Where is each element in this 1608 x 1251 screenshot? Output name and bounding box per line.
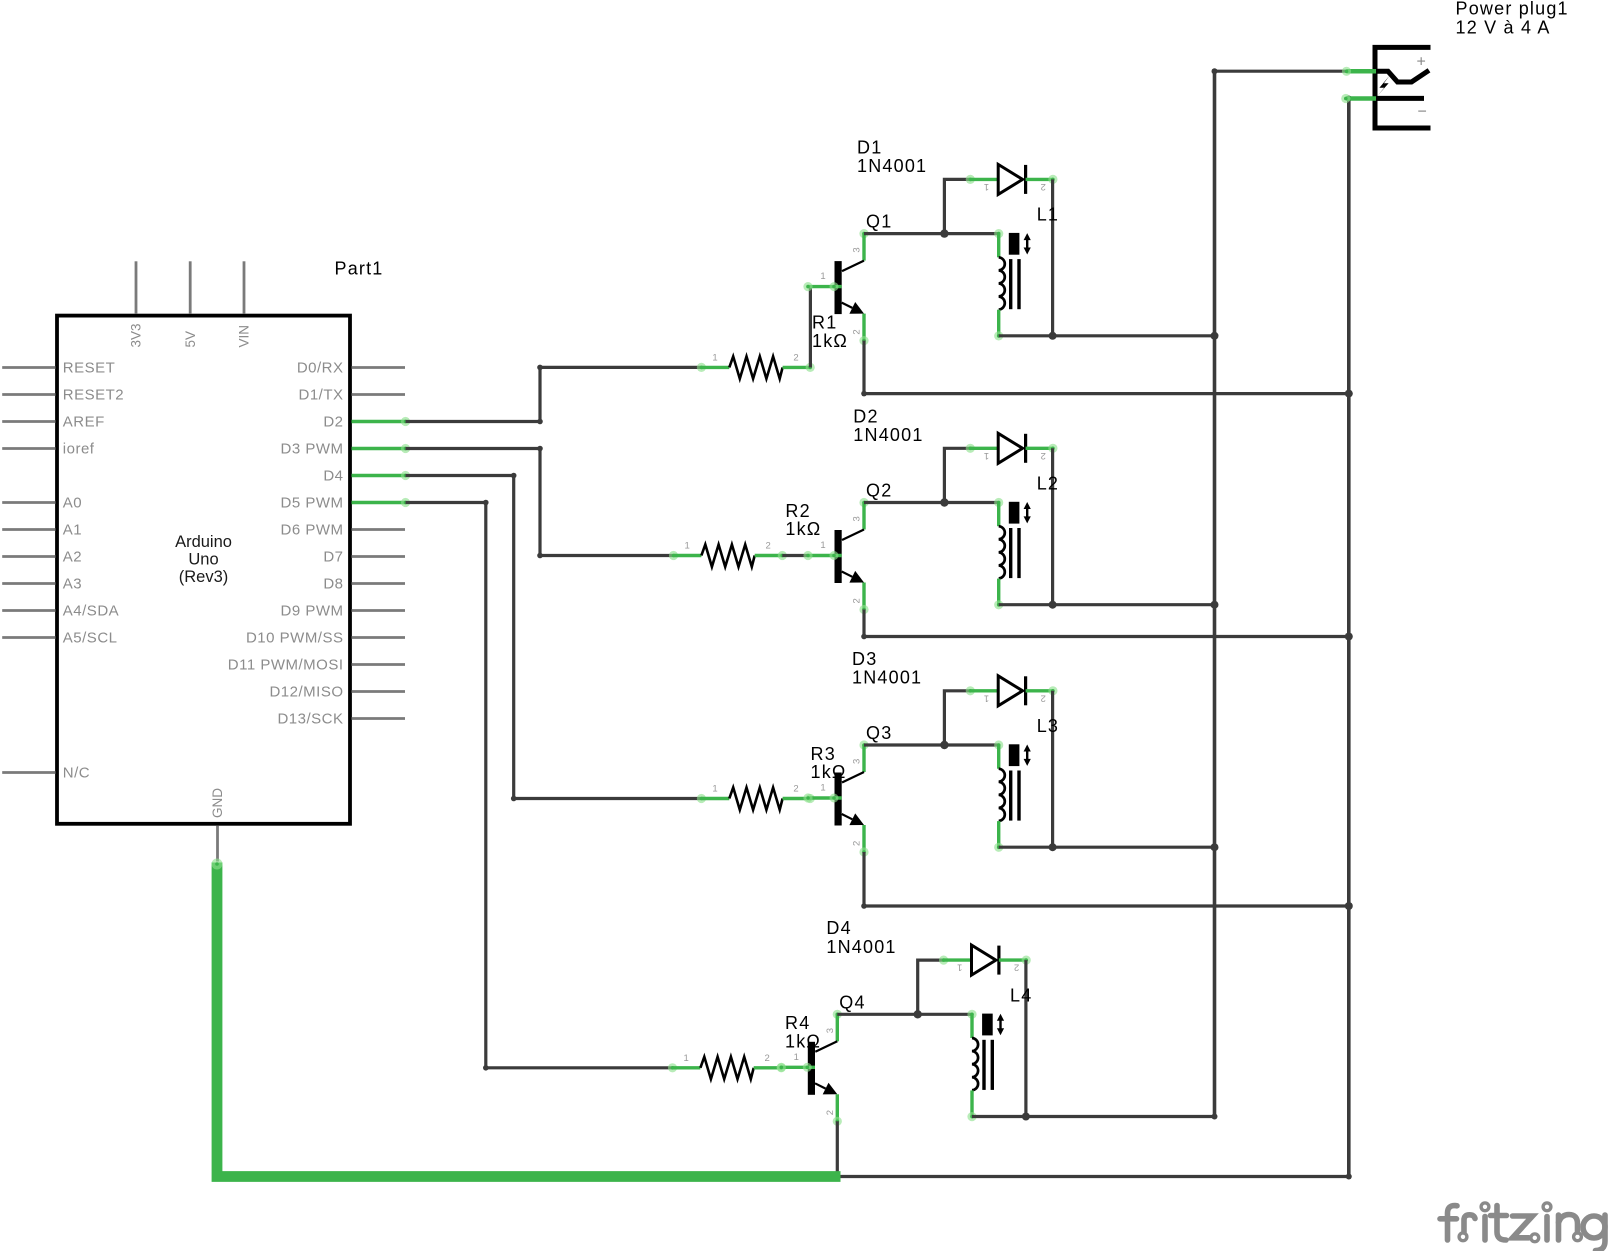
pin A3: [2, 576, 82, 593]
svg-text:R3: R3: [811, 744, 836, 764]
transistor Q1: [803, 212, 892, 346]
svg-text:1: 1: [984, 692, 989, 703]
diode D4 1N4001: [826, 918, 1030, 1018]
svg-text:R1: R1: [812, 313, 837, 333]
svg-text:−: −: [1418, 104, 1427, 121]
svg-text:D1/TX: D1/TX: [298, 387, 343, 404]
svg-text:1kΩ: 1kΩ: [785, 1031, 821, 1051]
svg-text:D3: D3: [852, 649, 877, 669]
resistor R4 1k ohm: [668, 1013, 821, 1079]
svg-text:D8: D8: [323, 576, 343, 593]
svg-text:1N4001: 1N4001: [852, 668, 922, 688]
wire Q1 collector to L1: [864, 232, 999, 235]
wire D2 cathode to L2 bottom: [1049, 448, 1057, 608]
wire Q3 collector to L3: [864, 743, 999, 746]
transistor Q4: [777, 992, 866, 1126]
svg-text:D0/RX: D0/RX: [297, 360, 344, 377]
svg-text:D4: D4: [323, 468, 343, 485]
diode D1 1N4001: [857, 137, 1058, 237]
svg-text:D1: D1: [857, 137, 882, 157]
pin N/C: [2, 765, 90, 782]
pin A4/SDA: [2, 603, 119, 620]
svg-text:ioref: ioref: [63, 441, 95, 458]
svg-text:A5/SCL: A5/SCL: [63, 630, 118, 647]
svg-text:1: 1: [794, 1052, 799, 1063]
wire R2 to Q2 base: [782, 554, 808, 557]
wire Q2 collector to L2: [864, 501, 999, 504]
svg-text:1: 1: [683, 1053, 688, 1064]
resistor R2 1k ohm: [669, 501, 822, 567]
pin RESET: [2, 360, 115, 377]
pin D3 PWM: [281, 441, 411, 458]
svg-text:Q3: Q3: [866, 723, 892, 743]
svg-text:R2: R2: [785, 501, 810, 521]
pin D2: [323, 414, 410, 431]
pin ioref: [2, 441, 95, 458]
wire Q4 emitter to ground bus: [837, 1121, 1352, 1179]
wire D5 pin to resistor R4: [406, 500, 673, 1071]
svg-text:A0: A0: [63, 495, 82, 512]
svg-text:N/C: N/C: [63, 765, 90, 782]
pin A2: [2, 549, 82, 566]
svg-text:+: +: [1417, 54, 1426, 71]
wire +12V bus to power plug +: [1215, 70, 1347, 73]
svg-text:5V: 5V: [183, 331, 198, 348]
svg-text:2: 2: [793, 784, 798, 795]
svg-text:D2: D2: [853, 406, 878, 426]
svg-text:1: 1: [957, 962, 962, 973]
inductor L3: [994, 716, 1059, 852]
svg-text:2: 2: [1014, 962, 1019, 973]
svg-text:D7: D7: [323, 549, 343, 566]
svg-text:L3: L3: [1037, 716, 1059, 736]
svg-text:2: 2: [765, 541, 770, 552]
svg-text:1: 1: [820, 271, 825, 282]
resistor R1 1k ohm: [697, 313, 848, 379]
pin D4: [323, 468, 410, 485]
svg-text:1: 1: [984, 450, 989, 461]
svg-text:1kΩ: 1kΩ: [812, 331, 848, 351]
pin GND: [210, 788, 225, 862]
svg-text:L2: L2: [1037, 474, 1059, 494]
svg-text:2: 2: [1041, 692, 1046, 703]
svg-text:2: 2: [793, 352, 798, 363]
wire D2 pin to resistor R1: [406, 365, 702, 425]
pin D7: [323, 549, 405, 566]
diode D3 1N4001: [852, 649, 1058, 749]
svg-text:Q2: Q2: [866, 481, 892, 501]
svg-text:2: 2: [1041, 450, 1046, 461]
svg-text:1N4001: 1N4001: [857, 156, 927, 176]
svg-text:3V3: 3V3: [129, 323, 144, 347]
svg-text:D9 PWM: D9 PWM: [281, 603, 344, 620]
pin D11 PWM/MOSI: [228, 657, 405, 674]
resistor R3 1k ohm: [697, 744, 847, 810]
inductor L1: [994, 205, 1059, 341]
svg-text:RESET2: RESET2: [63, 387, 124, 404]
pin A1: [2, 522, 82, 539]
pin 3V3: [129, 261, 144, 347]
svg-text:(Rev3): (Rev3): [179, 568, 229, 586]
svg-text:2: 2: [764, 1053, 769, 1064]
pin AREF: [2, 414, 105, 431]
pin D5 PWM: [281, 495, 411, 512]
GND wire (thick green from Arduino GND): [212, 859, 841, 1177]
wire Q3 emitter to ground bus: [861, 852, 1353, 910]
wire L1 bottom to +12V bus: [999, 332, 1219, 340]
svg-text:1: 1: [984, 181, 989, 192]
transistor Q2: [803, 481, 892, 615]
pin D6 PWM: [281, 522, 406, 539]
svg-text:12 V à 4 A: 12 V à 4 A: [1456, 18, 1551, 38]
svg-text:3: 3: [852, 247, 863, 252]
label Part1: [335, 259, 384, 279]
wire Q4 collector to L4: [837, 1013, 972, 1016]
svg-text:D10 PWM/SS: D10 PWM/SS: [246, 630, 344, 647]
svg-text:D12/MISO: D12/MISO: [269, 684, 343, 701]
wire D3 pin to resistor R2: [406, 446, 674, 559]
transistor Q3: [803, 723, 892, 857]
inductor L4: [967, 985, 1032, 1121]
wire D4 cathode to L4 bottom: [1022, 960, 1030, 1120]
svg-text:2: 2: [825, 1110, 836, 1115]
svg-text:1kΩ: 1kΩ: [785, 519, 821, 539]
svg-text:1: 1: [712, 352, 717, 363]
svg-text:R4: R4: [785, 1013, 810, 1033]
diode D2 1N4001: [853, 406, 1057, 506]
svg-text:2: 2: [1041, 181, 1046, 192]
wire L4 bottom to +12V bus: [972, 1114, 1218, 1120]
fritzing watermark logo: [1440, 1203, 1605, 1251]
svg-text:D3 PWM: D3 PWM: [281, 441, 344, 458]
svg-text:Q1: Q1: [866, 212, 892, 232]
svg-text:L4: L4: [1010, 985, 1032, 1005]
svg-text:1: 1: [712, 784, 717, 795]
pin D0/RX: [297, 360, 405, 377]
inductor L2: [994, 474, 1059, 610]
pin D10 PWM/SS: [246, 630, 405, 647]
svg-text:1: 1: [820, 783, 825, 794]
svg-text:VIN: VIN: [237, 325, 252, 348]
svg-text:A1: A1: [63, 522, 82, 539]
svg-text:1: 1: [684, 541, 689, 552]
svg-text:Arduino: Arduino: [175, 533, 232, 551]
svg-text:GND: GND: [210, 788, 225, 818]
svg-text:1: 1: [820, 540, 825, 551]
svg-text:A4/SDA: A4/SDA: [63, 603, 119, 620]
svg-text:RESET: RESET: [63, 360, 116, 377]
pin 5V: [183, 261, 198, 347]
svg-text:2: 2: [852, 598, 863, 603]
svg-text:Uno: Uno: [188, 551, 218, 569]
svg-text:D5 PWM: D5 PWM: [281, 495, 344, 512]
wire D4 pin to resistor R3: [406, 473, 702, 802]
svg-text:1N4001: 1N4001: [853, 425, 923, 445]
svg-text:D2: D2: [323, 414, 343, 431]
svg-text:Q4: Q4: [839, 992, 865, 1012]
power plug1 (12 V barrel jack): [1341, 0, 1569, 128]
wire D1 cathode to L1 bottom: [1049, 179, 1057, 339]
+12V bus wire (plug + to L1..L4): [1212, 68, 1218, 1116]
pin A5/SCL: [2, 630, 117, 647]
svg-text:3: 3: [825, 1028, 836, 1033]
pin VIN: [237, 261, 252, 347]
wire L3 bottom to +12V bus: [999, 843, 1219, 851]
wire L2 bottom to +12V bus: [999, 601, 1219, 609]
pin D13/SCK: [277, 711, 405, 728]
wire R1 to Q1 base: [809, 287, 812, 368]
Arduino Uno Part1 body: [57, 316, 350, 824]
svg-text:L1: L1: [1037, 205, 1059, 225]
svg-text:3: 3: [852, 759, 863, 764]
pin D12/MISO: [269, 684, 405, 701]
svg-text:1N4001: 1N4001: [826, 937, 896, 957]
svg-text:D13/SCK: D13/SCK: [277, 711, 343, 728]
svg-text:D11 PWM/MOSI: D11 PWM/MOSI: [228, 657, 344, 674]
wire Q2 emitter to ground bus: [861, 610, 1353, 641]
svg-text:2: 2: [852, 841, 863, 846]
svg-text:AREF: AREF: [63, 414, 105, 431]
ground return bus wire (plug - to emitters): [1346, 96, 1352, 1177]
svg-text:A2: A2: [63, 549, 82, 566]
svg-text:D4: D4: [826, 918, 851, 938]
wire D3 cathode to L3 bottom: [1049, 691, 1057, 851]
pin RESET2: [2, 387, 124, 404]
pin D9 PWM: [281, 603, 406, 620]
svg-text:3: 3: [852, 516, 863, 521]
svg-text:2: 2: [852, 329, 863, 334]
svg-text:Power plug1: Power plug1: [1456, 0, 1569, 19]
svg-text:D6 PWM: D6 PWM: [281, 522, 344, 539]
svg-text:A3: A3: [63, 576, 82, 593]
wire Q1 emitter to ground bus: [861, 341, 1353, 398]
pin D8: [323, 576, 405, 593]
pin D1/TX: [298, 387, 405, 404]
pin A0: [2, 495, 82, 512]
svg-text:Part1: Part1: [335, 259, 384, 279]
